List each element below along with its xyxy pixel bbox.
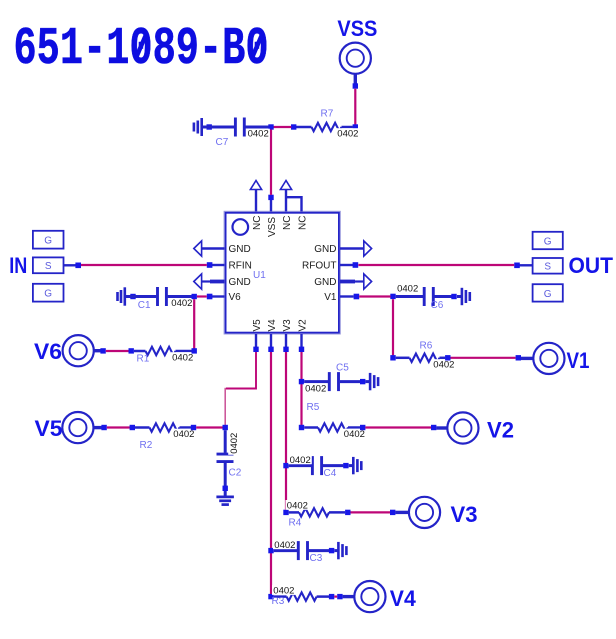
junction V3 pin [283, 347, 288, 352]
wire V4 pin down [270, 352, 272, 594]
junction V6 pin [207, 294, 213, 300]
svg-text:V3: V3 [282, 319, 293, 332]
pad S (IN) [33, 257, 64, 273]
junction C1-R1 [192, 294, 197, 299]
svg-text:0402: 0402 [273, 586, 294, 597]
U1 pin labels left [229, 244, 252, 303]
capacitor C3 [273, 539, 346, 564]
junction V2 terminal [431, 425, 436, 430]
GND arrow right top [364, 241, 372, 256]
junction C2 top [223, 425, 228, 430]
junction R4 left [283, 510, 288, 515]
wire IN to RFIN [81, 264, 207, 266]
svg-text:0402: 0402 [274, 540, 295, 551]
svg-text:0402: 0402 [248, 128, 269, 139]
svg-text:0402: 0402 [229, 433, 240, 454]
svg-text:S: S [544, 262, 551, 273]
U1 V1 pin stub [340, 295, 354, 297]
svg-text:NC: NC [282, 216, 293, 230]
svg-text:V5: V5 [252, 319, 263, 332]
U1 pin 1 NC stub [255, 189, 257, 212]
svg-text:V6: V6 [229, 292, 242, 303]
wire V2 pin down [300, 352, 302, 425]
junction R7 left [291, 124, 296, 129]
svg-text:C7: C7 [216, 137, 229, 148]
svg-text:GND: GND [314, 277, 336, 288]
resistor R2 [135, 423, 196, 451]
U1 pin 3 NC stub [285, 189, 287, 212]
OUT S pad lead [520, 264, 533, 266]
junction R7 right [353, 124, 358, 129]
junction V5 terminal [101, 425, 106, 430]
pad G bottom (OUT) [533, 284, 563, 301]
junction C7 right [268, 124, 273, 129]
junction OUT [514, 263, 520, 269]
GND arrow left top [194, 241, 202, 256]
junction V1 terminal [516, 355, 521, 360]
svg-text:OUT: OUT [569, 253, 614, 278]
svg-text:R1: R1 [137, 354, 150, 365]
U1 left GND pin 1 stub [202, 247, 225, 250]
svg-text:GND: GND [229, 244, 251, 255]
IN S pad lead [64, 264, 76, 266]
junction V4 pin [268, 347, 273, 352]
pad G top (OUT) [533, 232, 563, 249]
wire VSS pin up [270, 130, 272, 195]
svg-text:G: G [544, 289, 552, 300]
U1 pin 2 VSS stub [270, 198, 272, 212]
capacitor C4 [288, 455, 361, 479]
IC U1 body [224, 211, 340, 334]
GND arrow left bottom [194, 274, 202, 289]
GND arrow right bottom [364, 274, 372, 289]
svg-text:V3: V3 [451, 502, 478, 527]
svg-text:RFOUT: RFOUT [302, 261, 336, 272]
wire C1 junction to V6 pin [197, 295, 207, 297]
svg-text:0402: 0402 [433, 360, 454, 371]
svg-text:C6: C6 [431, 300, 444, 311]
svg-text:VSS: VSS [267, 217, 278, 237]
svg-text:0402: 0402 [337, 129, 358, 140]
svg-text:0402: 0402 [344, 429, 365, 440]
svg-text:V1: V1 [324, 292, 337, 303]
svg-text:GND: GND [229, 277, 251, 288]
junction V6 terminal [100, 348, 105, 353]
U1 right GND pin stub top [340, 247, 363, 250]
resistor R4 [286, 500, 346, 528]
ground C2 [216, 497, 234, 505]
wire V3 pin down [285, 352, 287, 510]
svg-text:S: S [45, 261, 52, 272]
svg-text:G: G [44, 289, 52, 300]
capacitor C7 [194, 118, 270, 148]
title 651-1089-B0 [14, 19, 269, 79]
svg-text:C2: C2 [229, 468, 242, 479]
pad G bottom (IN) [33, 284, 64, 302]
resistor R6 [396, 340, 456, 370]
U1 bottom pin stubs V5 V4 V3 V2 [256, 334, 302, 347]
terminal VSS [337, 16, 377, 85]
U1 V6 pin stub [212, 295, 225, 297]
junction R3 left [268, 594, 273, 599]
junction VSS pin [268, 195, 273, 200]
junction RFOUT [353, 262, 359, 268]
U1 left GND pin 3 stub [210, 280, 225, 284]
junction R1 left [129, 348, 134, 353]
U1 RFOUT pin stub [340, 264, 353, 266]
terminal V4 [343, 581, 417, 612]
capacitor C2 [217, 430, 242, 496]
wire V1 pin to C6 tee [359, 295, 390, 297]
wire V5 pin to C2 junction [226, 352, 256, 389]
junction R6 right [445, 355, 450, 360]
junction C6 tee [390, 294, 395, 299]
junction C3 [268, 548, 273, 553]
svg-text:C3: C3 [310, 553, 323, 564]
svg-text:G: G [44, 236, 52, 247]
svg-text:0402: 0402 [171, 298, 192, 309]
svg-text:NC: NC [297, 216, 308, 230]
wire RFOUT to OUT [358, 264, 514, 266]
wire R6 to V1 terminal [451, 357, 516, 359]
wire NC3-NC4 bracket [286, 197, 302, 211]
svg-text:V2: V2 [487, 418, 514, 443]
junction C5 [299, 379, 304, 384]
wire R4 to V3 terminal [351, 511, 391, 513]
svg-text:R3: R3 [272, 596, 285, 607]
svg-text:V4: V4 [267, 319, 278, 332]
svg-text:IN: IN [9, 253, 27, 278]
junction V4 terminal [337, 594, 342, 599]
junction V5 pin [253, 347, 258, 352]
svg-text:C5: C5 [336, 362, 349, 373]
terminal V6 [34, 335, 102, 366]
svg-text:V6: V6 [34, 339, 62, 364]
svg-text:R2: R2 [140, 440, 153, 451]
U1 pin labels bottom (V5 V4 V3 V2) [252, 319, 309, 332]
wire V6 terminal to R1 [106, 350, 129, 352]
pad G top (IN) [33, 231, 64, 249]
junction V2 pin [299, 347, 304, 352]
junction R3 right [329, 594, 334, 599]
junction R2 right [191, 425, 196, 430]
terminal V2 [436, 412, 514, 443]
junction R1 right [192, 348, 197, 353]
svg-text:0402: 0402 [305, 384, 326, 395]
junction VSS terminal [353, 83, 358, 88]
U1 pin labels right [302, 244, 337, 303]
U1 RFIN pin stub [212, 264, 225, 266]
resistor R7 [296, 109, 360, 140]
svg-text:0402: 0402 [287, 501, 308, 512]
svg-text:0402: 0402 [397, 284, 418, 295]
svg-text:V1: V1 [567, 348, 590, 373]
wire R5 to V2 terminal [365, 426, 431, 428]
svg-text:V2: V2 [297, 319, 308, 332]
junction R5 left [299, 425, 304, 430]
svg-text:U1: U1 [253, 270, 266, 281]
capacitor C6 [396, 283, 470, 311]
svg-text:VSS: VSS [337, 16, 377, 41]
resistor R5 [304, 402, 366, 440]
capacitor C5 [304, 362, 378, 394]
svg-text:C4: C4 [324, 468, 337, 479]
svg-text:R4: R4 [289, 517, 302, 528]
svg-text:0402: 0402 [290, 455, 311, 466]
svg-text:G: G [544, 236, 552, 247]
U1 pin labels top (NC VSS NC NC) [252, 216, 309, 237]
wire V5 terminal to R2 [107, 426, 130, 428]
no-connect arrow pin 1 [250, 181, 261, 190]
svg-text:C1: C1 [138, 300, 151, 311]
junction R2 left [130, 425, 135, 430]
wire R3 to V4 terminal [334, 595, 337, 597]
svg-text:GND: GND [314, 244, 336, 255]
junction RFIN [207, 262, 213, 268]
junction V3 terminal [390, 510, 395, 515]
wire C1 junction down to R1 [193, 299, 195, 351]
junction R4 right [345, 510, 350, 515]
wire C6 tee down to R6 [392, 299, 394, 355]
svg-text:R5: R5 [307, 402, 320, 413]
terminal V1 [521, 343, 590, 374]
capacitor C1 [118, 287, 194, 311]
svg-text:R7: R7 [321, 109, 334, 120]
no-connect arrow pin 3 [280, 181, 291, 190]
junction V1 pin [354, 294, 360, 300]
wire R2 to C2 junction [196, 426, 222, 428]
terminal V5 [35, 412, 104, 443]
pad S (OUT) [533, 258, 563, 274]
svg-text:V5: V5 [35, 416, 63, 441]
junction R6 left [390, 355, 395, 360]
resistor R3 [272, 585, 330, 607]
svg-text:RFIN: RFIN [229, 261, 252, 272]
wire C7 to R7 [274, 126, 292, 128]
terminal V3 [395, 497, 477, 528]
U1 right GND pin stub bottom [340, 280, 355, 284]
junction C4 [283, 463, 288, 468]
resistor R1 [134, 347, 194, 365]
svg-text:0402: 0402 [172, 353, 193, 364]
svg-text:R6: R6 [420, 340, 433, 351]
junction R5 right [360, 425, 365, 430]
svg-text:V4: V4 [390, 586, 417, 611]
wire VSS terminal down to R7 [354, 89, 356, 125]
svg-text:NC: NC [252, 216, 263, 230]
svg-text:0402: 0402 [173, 429, 194, 440]
junction IN [75, 263, 81, 269]
